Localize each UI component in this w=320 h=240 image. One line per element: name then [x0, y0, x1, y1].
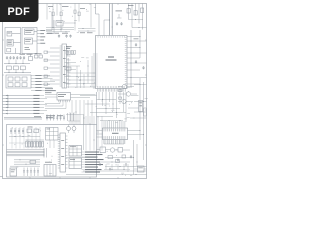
wire bus from block A to right	[46, 12, 54, 34]
module block A2 (tuner sub-box)	[22, 28, 37, 54]
caps on bottom runs	[99, 159, 127, 171]
capacitor row C101-C106	[6, 54, 33, 60]
components row inside box top	[9, 127, 40, 137]
diode-resistor cluster bottom-right	[104, 155, 132, 170]
vertical rail right of U1	[130, 30, 140, 88]
svg-text:PDF: PDF	[8, 6, 31, 18]
labels top-middle	[48, 6, 85, 9]
connector CN201 (vertical pin strip)	[60, 44, 69, 88]
transistors Q302 Q303	[67, 125, 77, 134]
right-edge vertical wires bottom	[133, 140, 138, 175]
IC U5 (DIP, horizontal)	[103, 128, 128, 140]
wires left of U5	[97, 131, 103, 138]
transistor Q301 cluster right-mid	[118, 84, 137, 103]
wire stubs into label list	[82, 152, 86, 172]
CN201 right-side stubs	[67, 48, 71, 88]
wires into U2 from left	[45, 100, 66, 109]
module block A1 (top-left shielded section)	[5, 28, 21, 54]
bus bundle in audio box	[7, 148, 47, 158]
U5 top pin stubs	[104, 121, 125, 128]
wires right of U5	[128, 124, 145, 160]
connector CN301 (vertical)	[58, 133, 68, 172]
components below U5	[97, 140, 131, 153]
audio section outline box	[7, 125, 97, 178]
wires left of CN201	[44, 48, 60, 85]
net label stack right of FL101	[31, 75, 55, 91]
box K201 upper-middle	[56, 21, 76, 27]
wire h-bus y63.5	[4, 59, 30, 64]
filter network box FL101	[6, 75, 31, 88]
small caps row upper-middle	[58, 35, 72, 38]
caption text right of double bus	[46, 115, 63, 118]
vertical drops from U2 region	[72, 100, 92, 125]
mesh above CN301	[66, 112, 83, 125]
logic gate cluster in audio box	[46, 128, 59, 149]
resistor array RN301	[26, 140, 45, 147]
resistor pack RN201	[66, 46, 76, 55]
U1 bottom pin stubs	[98, 89, 126, 92]
crystal X101 with load caps	[29, 53, 43, 60]
junction dots scatter	[11, 7, 148, 176]
U1 right pin wires to right rail	[127, 37, 147, 85]
transformer T301	[44, 162, 56, 176]
capacitor row above main box	[46, 113, 74, 121]
U1 bottom drop wires	[97, 92, 127, 125]
resistor boxes on top drops	[52, 10, 80, 16]
double bus line y118	[4, 116, 42, 119]
annotation text block left of U2	[45, 88, 56, 93]
relay box bottom-right	[134, 166, 147, 172]
right edge components mid	[128, 78, 147, 124]
IC U4 box below U3	[69, 158, 82, 169]
speaker driver box	[10, 168, 17, 176]
decoupling caps near U1 top	[116, 11, 123, 26]
right-rail caps	[134, 39, 145, 70]
dense wire band upper-middle	[46, 27, 96, 34]
lower wire group in audio box	[14, 159, 40, 165]
U5 bottom pin stubs	[104, 140, 125, 145]
wire mesh inside audio box	[9, 127, 44, 149]
box U2 below-left of U1	[45, 93, 96, 103]
IC U1 (main microcontroller)	[96, 36, 128, 89]
net labels on block A2 outputs	[37, 30, 45, 44]
horizontal wires below U1	[80, 96, 126, 122]
bus wires to left edge with net labels	[3, 95, 48, 115]
net label list bottom-middle	[85, 152, 104, 173]
output caps row bottom-left	[10, 166, 40, 176]
wires between CN201 and U1 left pins	[65, 46, 96, 88]
bottom wire runs	[66, 158, 147, 176]
IC supply rail pair into U1 top	[96, 4, 113, 36]
wires up from label list	[84, 114, 103, 151]
wire drops from top border	[47, 4, 91, 32]
resistor row R111-R113	[4, 66, 31, 73]
U1 left pin stubs	[93, 54, 96, 88]
top-right drops and components	[127, 4, 147, 30]
PDF badge	[0, 0, 39, 22]
IC U3 regulator box	[69, 146, 82, 157]
